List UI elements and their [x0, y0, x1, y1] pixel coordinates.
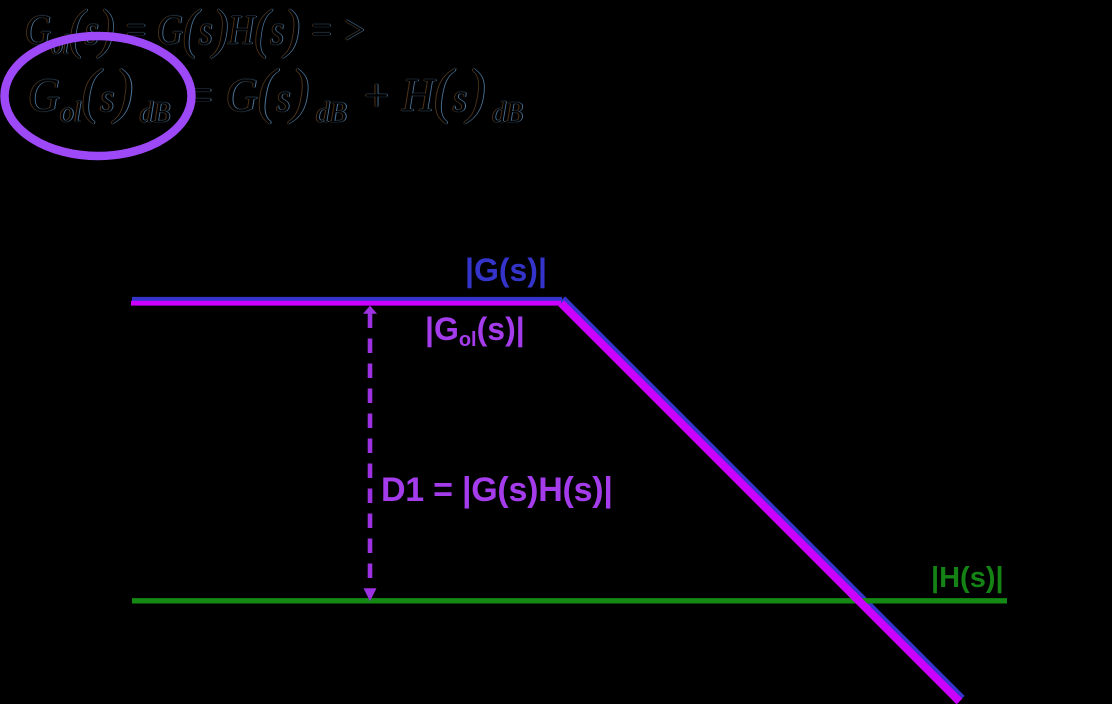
formula line 2: Gol(s)dB = G(s)dB + H(s)dB [28, 57, 526, 127]
magenta |Gol(s)| bode line: horizontal + thick slope [131, 301, 561, 306]
label |H(s)| [931, 564, 1004, 593]
label |Gol(s)| [425, 313, 525, 350]
formula line 1: Gol(s) = G(s)H(s) = > [25, 0, 367, 60]
blue |G(s)| bode line: horizontal + steeper-thick slope [132, 297, 562, 301]
label D1 [381, 473, 613, 507]
green |H(s)| line [132, 598, 1007, 603]
dashed D1 arrow [363, 306, 377, 602]
ellipse annotation around Gol(s)dB [5, 36, 192, 156]
label |G(s)| [465, 254, 547, 286]
